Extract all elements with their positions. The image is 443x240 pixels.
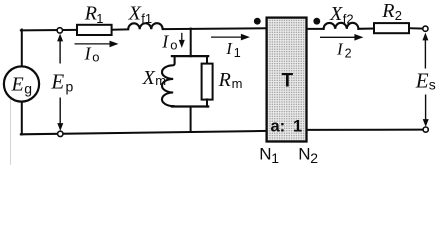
svg-text:1: 1 [271, 150, 279, 165]
inductor Xf1 [128, 23, 163, 29]
svg-text:o: o [92, 50, 99, 65]
svg-text:2: 2 [345, 46, 352, 60]
wire Xf1 to transformer left [163, 27, 267, 30]
svg-text:E: E [50, 69, 64, 93]
label Io horizontal [84, 44, 100, 65]
arrow Ep (bottom, pointing down) [57, 98, 63, 131]
svg-text:2: 2 [310, 150, 318, 165]
wire R2 to right node [409, 27, 423, 29]
svg-text:o: o [170, 38, 177, 53]
inductor Xm [162, 56, 175, 106]
label N1 [259, 145, 279, 167]
label N2 [298, 145, 318, 167]
arrow Es (top, pointing up) [422, 33, 428, 69]
svg-text:1: 1 [96, 11, 103, 26]
node terminal top-right [423, 26, 428, 31]
label Xm [142, 67, 166, 89]
svg-text:I: I [225, 39, 233, 58]
svg-text:X: X [142, 67, 156, 89]
svg-text:p: p [66, 78, 74, 94]
svg-text:X: X [329, 3, 343, 25]
label I2 [336, 39, 352, 60]
arrow I1 [211, 34, 250, 41]
wire bottom-right rail [306, 129, 423, 131]
node terminal bottom-right [423, 127, 428, 132]
label Es [415, 68, 436, 92]
wire transformer right to Xf2 [306, 28, 323, 30]
svg-text:g: g [24, 80, 32, 96]
svg-text:a:: a: [271, 117, 286, 135]
label Io vertical [161, 31, 177, 52]
wire R1 to Xf1 [112, 28, 129, 30]
transformer T box [267, 18, 307, 142]
label R2 [381, 0, 402, 23]
svg-text:E: E [11, 74, 24, 96]
svg-text:R: R [84, 3, 97, 25]
label R1 [84, 3, 104, 26]
svg-text:X: X [128, 3, 142, 25]
polarity dot right [313, 18, 320, 25]
svg-text:1: 1 [234, 46, 241, 60]
arrow I2 [320, 34, 363, 41]
svg-text:2: 2 [395, 8, 402, 23]
arrow Es (bottom, pointing down) [423, 95, 429, 127]
svg-text:m: m [232, 76, 243, 91]
svg-text:T: T [282, 70, 294, 91]
wire shunt bottom bar [172, 105, 208, 107]
svg-text:I: I [84, 44, 92, 64]
label Ep [50, 69, 73, 94]
svg-text:f1: f1 [141, 11, 152, 26]
svg-text:f2: f2 [343, 11, 354, 26]
resistor R1 [77, 25, 112, 35]
label Xf1 [128, 3, 153, 27]
label Rm [218, 69, 243, 91]
node terminal top-left [57, 28, 62, 33]
scan artifact faint line [10, 96, 12, 165]
resistor R2 [374, 23, 409, 33]
wire Xf2 to R2 [358, 28, 374, 30]
label I1 [225, 39, 241, 60]
svg-text:I: I [161, 31, 169, 51]
svg-text:N: N [259, 145, 271, 164]
svg-text:R: R [218, 69, 231, 91]
inductor Xf2 [324, 23, 359, 29]
wire junction drop from top rail [190, 29, 192, 57]
svg-text:1: 1 [293, 117, 302, 135]
wire left vertical lower [21, 101, 23, 134]
svg-text:I: I [336, 39, 344, 58]
wire Rm top stub [206, 56, 208, 64]
svg-text:N: N [298, 145, 310, 164]
resistor Rm [202, 64, 213, 100]
label Xf2 [329, 3, 354, 27]
arrow Ep (top, pointing up) [57, 34, 63, 64]
wire top-left rail [21, 29, 77, 32]
svg-text:s: s [429, 76, 436, 92]
wire Rm bottom stub [206, 99, 208, 106]
svg-text:E: E [415, 68, 429, 92]
arrow Io vertical at shunt junction [179, 33, 185, 48]
svg-text:R: R [381, 0, 394, 22]
label Eg [11, 74, 33, 97]
source Eg circle [4, 66, 39, 101]
wire left vertical upper [21, 30, 23, 67]
wire shunt top bar [172, 55, 208, 57]
arrow Io horizontal [75, 41, 119, 48]
svg-text:m: m [155, 73, 166, 88]
wire bottom-left rail [21, 131, 267, 134]
node terminal bottom-left [58, 131, 63, 136]
wire shunt drop to bottom rail [190, 107, 192, 132]
polarity dot left [254, 18, 261, 25]
